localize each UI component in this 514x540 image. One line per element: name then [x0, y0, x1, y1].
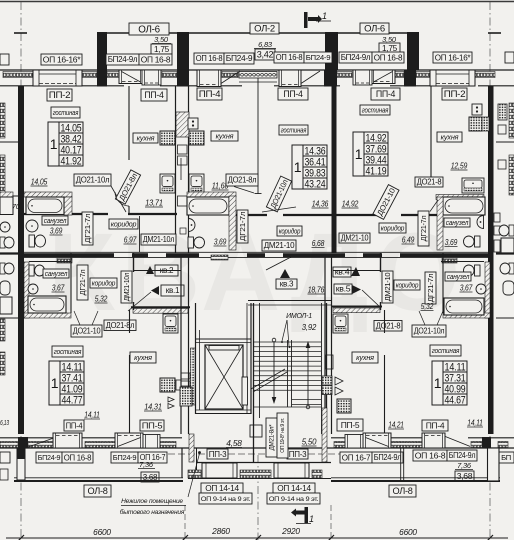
- room label sanuzel L: [42, 216, 68, 225]
- svg-text:ДО21-10: ДО21-10: [73, 327, 101, 336]
- kitchen sink LR: [333, 314, 348, 333]
- wall LL corridor top: [133, 270, 181, 272]
- svg-text:ПП-4: ПП-4: [66, 420, 83, 430]
- room label kuhnya LL: [130, 352, 156, 363]
- svg-text:гостиная: гостиная: [53, 108, 79, 117]
- label edge partial right: [505, 52, 514, 63]
- corridor wall y216 seg 1: [283, 214, 333, 216]
- kitchen partition left apt lower: [128, 206, 130, 213]
- svg-text:1,75: 1,75: [382, 43, 398, 53]
- svg-text:ОП 9-14 на 9 эт.: ОП 9-14 на 9 эт.: [269, 496, 319, 503]
- svg-text:ПП-2: ПП-2: [49, 90, 71, 100]
- svg-text:1,75: 1,75: [154, 44, 170, 54]
- label edge partial left bottom: [0, 452, 10, 463]
- window hatch top 8: [475, 72, 495, 78]
- svg-text:гостиная: гостиная: [281, 125, 307, 134]
- top wall pier D: [404, 70, 416, 87]
- door label DG21-7l CR: [418, 211, 429, 246]
- svg-text:3,69: 3,69: [50, 226, 63, 236]
- bottom wall inner face 4: [389, 437, 424, 439]
- room label sanuzel LL: [43, 269, 69, 278]
- corridor wall y253 seg 5: [363, 253, 382, 257]
- bottom wall inner face 0: [0, 437, 55, 439]
- left edge sink lower: [0, 281, 10, 295]
- kitchen partition cright apt: [430, 86, 432, 185]
- sink CR (half-round): [477, 216, 483, 229]
- bath CR top wall hatch: [436, 195, 484, 200]
- window hatch bottom 6: [471, 442, 482, 448]
- corridor wall y253 top line: [24, 251, 490, 253]
- bottom wall inner face 3: [331, 437, 363, 439]
- balcony OL-8 right rail b: [331, 480, 500, 482]
- svg-text:кв.4: кв.4: [335, 268, 350, 277]
- svg-text:коридор: коридор: [279, 227, 301, 235]
- label BP24-9l bR2: [447, 450, 477, 461]
- corridor wall y253 bottom line: [24, 257, 490, 259]
- corridor wall y253 seg 1: [132, 253, 148, 257]
- svg-text:ПП-3: ПП-3: [209, 449, 227, 459]
- section mark 1 top: [304, 11, 331, 28]
- label PP-4 LR: [422, 420, 448, 431]
- wall stair/kitchen lower: [324, 257, 326, 434]
- corridor wall y253 seg 2: [166, 253, 199, 257]
- room label kuhnya L: [133, 133, 158, 143]
- balcony OL-8 partition a: [400, 448, 402, 481]
- dim 18,76: [308, 285, 325, 295]
- right edge wall y140: [496, 141, 514, 143]
- axis line right x=490: [489, 2, 491, 538]
- porch hatch b: [240, 470, 271, 478]
- left edge bath hatch: [0, 192, 13, 197]
- wall LR kitchen2: [384, 355, 386, 434]
- svg-text:41.92: 41.92: [61, 155, 82, 167]
- window OP16-16* left: [33, 70, 82, 86]
- svg-text:2920: 2920: [281, 526, 300, 536]
- label OP16-8 bR: [413, 450, 447, 461]
- area table apt LR: [432, 361, 467, 406]
- bottom wall outer face: [0, 447, 514, 449]
- corridor wall y213 seg 1: [128, 213, 177, 215]
- label edge partial left: [0, 54, 9, 65]
- room label kuhnya CL: [211, 131, 238, 141]
- svg-text:ОЛ-6: ОЛ-6: [138, 24, 160, 35]
- label PP-3 L: [207, 449, 228, 459]
- svg-text:санузел: санузел: [446, 219, 469, 227]
- wall panel 2: [181, 381, 190, 386]
- hall wall y303 left: [131, 306, 190, 308]
- dim 6,97: [124, 235, 137, 245]
- svg-text:ДГ21-7л: ДГ21-7л: [419, 216, 428, 242]
- label kv.4: [333, 267, 351, 277]
- dim 4,58: [226, 438, 242, 448]
- area table apt CR: [353, 132, 388, 177]
- svg-text:5,32: 5,32: [421, 301, 434, 311]
- door label DO21-8l L rot: [115, 170, 140, 204]
- corridor partition L x140: [139, 216, 141, 252]
- hall wall hatch left: [133, 309, 188, 314]
- bottom wall pier right edge: [482, 437, 491, 448]
- svg-text:гостиная: гостиная: [54, 347, 82, 356]
- top facade line: [0, 1, 514, 3]
- dim 14,11 LR: [467, 418, 483, 428]
- top wall outer face: [0, 69, 514, 71]
- bathtub CR: [443, 197, 485, 215]
- dim 11,68: [212, 181, 229, 191]
- label OL-6 right: [360, 23, 389, 35]
- svg-text:6,49: 6,49: [402, 235, 415, 245]
- svg-text:7,36: 7,36: [139, 460, 154, 469]
- dim 14,11 LL: [84, 410, 100, 420]
- svg-text:ОП 14-14: ОП 14-14: [205, 483, 239, 493]
- right edge window hatch: [509, 103, 514, 138]
- left edge window hatch: [0, 103, 5, 138]
- shaft wall left inner: [188, 86, 190, 253]
- room label kuhnya CR: [437, 132, 462, 142]
- garbage chute box: [180, 387, 192, 406]
- svg-text:43.24: 43.24: [305, 178, 326, 190]
- svg-text:ДМ21-10: ДМ21-10: [341, 234, 369, 243]
- svg-text:ПП-3: ПП-3: [289, 449, 307, 459]
- door label DG21-7l LR: [425, 272, 436, 304]
- svg-text:ОП 16-8: ОП 16-8: [141, 54, 171, 64]
- svg-text:кухня: кухня: [356, 353, 374, 362]
- label OP16-16* L: [41, 54, 82, 65]
- svg-text:14,36: 14,36: [312, 199, 329, 209]
- top wall pier C: [324, 70, 337, 87]
- left edge partial box low: [0, 469, 8, 480]
- svg-text:БП24-9: БП24-9: [113, 453, 137, 462]
- window hatch top 3: [162, 72, 177, 78]
- balcony OL-8 left rail a: [14, 477, 183, 479]
- wall LL kitchen2: [129, 355, 131, 434]
- window hatch top 0: [3, 72, 35, 78]
- label OP9-14 R: [267, 493, 320, 504]
- axis line center x=258 lower: [257, 455, 259, 540]
- room label koridor LL: [90, 278, 117, 288]
- kitchen sink CR: [462, 178, 484, 193]
- svg-text:БП24-9: БП24-9: [306, 53, 331, 62]
- room label gostinaya LR: [430, 345, 461, 356]
- svg-text:12,59: 12,59: [451, 161, 468, 171]
- svg-text:18,76: 18,76: [308, 285, 325, 295]
- kv.4 arrow: [351, 267, 360, 276]
- bathtub CL: [187, 197, 229, 215]
- label 3,42: [255, 49, 275, 60]
- window hatch top 4: [222, 72, 238, 78]
- partition CR foot: [428, 185, 435, 187]
- door label DO21-10l L: [74, 174, 111, 186]
- left edge toilet: [0, 237, 14, 248]
- right edge sink lower: [503, 281, 514, 295]
- label OL-2: [250, 23, 279, 35]
- svg-text:3,67: 3,67: [52, 283, 65, 293]
- svg-text:БП24-9л: БП24-9л: [449, 451, 476, 460]
- svg-text:ДО21-10л: ДО21-10л: [414, 327, 445, 336]
- svg-text:ОП 16-7: ОП 16-7: [342, 452, 371, 462]
- svg-text:ДГ21-7л: ДГ21-7л: [238, 212, 247, 242]
- panel box CL: [188, 118, 198, 129]
- dim 13,71: [145, 198, 163, 208]
- corridor wall y253 seg 0: [24, 253, 114, 257]
- svg-text:14,11: 14,11: [84, 410, 100, 420]
- window hatch bottom 0: [0, 442, 18, 448]
- shaft hatch: [176, 112, 189, 137]
- bottom wall inner face 2: [158, 437, 182, 439]
- stove CR: [469, 117, 482, 131]
- left edge toilet lower: [0, 263, 14, 274]
- porch hatch a: [188, 470, 201, 478]
- label OP16-7 bL: [138, 452, 167, 463]
- elevator shaft walls: [196, 303, 252, 414]
- svg-text:ОП 9-14 на 9 эт.: ОП 9-14 на 9 эт.: [201, 496, 251, 503]
- dim 6,49: [402, 235, 415, 245]
- svg-text:кв.5: кв.5: [336, 285, 351, 294]
- svg-text:кухня: кухня: [137, 133, 155, 142]
- door label DM21-10l L: [141, 234, 176, 245]
- kitchen partition left apt: [128, 86, 130, 160]
- door label DM21-10 CL: [262, 240, 296, 251]
- svg-text:4,58: 4,58: [226, 438, 242, 448]
- bottom balcony door LR-1: [363, 433, 391, 448]
- dim 14,21 LRx: [388, 420, 404, 430]
- area table apt CL: [292, 145, 327, 190]
- svg-text:14,21: 14,21: [388, 420, 404, 430]
- top wall inner face 3: [218, 85, 242, 87]
- wall LL bath right: [70, 253, 72, 313]
- balcony door BP24-9 cright: [279, 70, 320, 87]
- dim 7,36 L line: [138, 468, 155, 470]
- label DO21-8 CR: [415, 177, 443, 187]
- svg-text:6600: 6600: [93, 527, 111, 537]
- window hatch top 7: [416, 72, 430, 78]
- svg-text:ДО21-8л: ДО21-8л: [106, 321, 135, 330]
- bottom balcony door LR-2: [422, 433, 470, 448]
- svg-text:ДМ21-10: ДМ21-10: [264, 241, 295, 250]
- right wall panel 2: [494, 226, 500, 235]
- svg-text:6,13: 6,13: [0, 420, 9, 427]
- svg-text:1: 1: [322, 11, 327, 21]
- bathtub L: [26, 197, 64, 215]
- svg-text:14,31: 14,31: [144, 402, 162, 412]
- dim 5,32 LR: [421, 301, 434, 311]
- kitchen sink LL: [163, 314, 178, 333]
- hall threshold hatch C: [211, 255, 228, 260]
- svg-text:3,69: 3,69: [445, 237, 458, 247]
- left edge window hatch 2: [0, 155, 5, 195]
- door label DM21-10l LL: [121, 271, 132, 303]
- window hatch top 6: [395, 72, 404, 78]
- label BP24-9l bR: [372, 452, 403, 463]
- bath LL top wall: [29, 261, 71, 263]
- wall LR bath left: [442, 253, 444, 313]
- stair left wall: [254, 303, 260, 463]
- svg-text:14,11: 14,11: [467, 418, 483, 428]
- svg-text:санузел: санузел: [44, 217, 67, 225]
- balcony OL-8 right rail a: [331, 477, 500, 479]
- label BP24-9 bL2: [111, 452, 138, 463]
- window hatch bottom 1: [28, 442, 53, 448]
- svg-text:3,67: 3,67: [460, 283, 473, 293]
- window OP16-8 sill left: [142, 70, 161, 85]
- vestibule door frame: [250, 425, 262, 437]
- stove L: [160, 131, 175, 145]
- porch left wall: [196, 448, 198, 479]
- sink CL (half-round): [189, 219, 196, 232]
- svg-text:1: 1: [355, 146, 363, 162]
- leader DO21-10l: [111, 186, 126, 212]
- bottom balcony door LL-2: [115, 433, 143, 448]
- svg-text:коридор: коридор: [396, 281, 419, 289]
- left edge bathtub partial: [0, 197, 13, 215]
- bath CL right wall hatch: [229, 196, 236, 250]
- wall LL corridor/kitchen v2: [133, 302, 135, 310]
- top wall inner face 0: [0, 85, 38, 87]
- door arc kitchen L: [115, 192, 129, 206]
- bathtub LL: [28, 296, 66, 313]
- svg-text:БП: БП: [501, 453, 511, 462]
- balcony pier mid-left: [177, 32, 189, 70]
- svg-text:7,36: 7,36: [457, 461, 472, 470]
- leader 14,36: [262, 207, 296, 212]
- kitchen sink CL: [189, 174, 204, 193]
- svg-text:кухня: кухня: [134, 353, 152, 362]
- balcony OL-6 right rail: [338, 32, 418, 34]
- porch wall hatch left: [189, 434, 194, 462]
- shaft wall left outer: [175, 86, 177, 253]
- svg-text:6,97: 6,97: [124, 235, 137, 245]
- room label sanuzel CR: [444, 218, 470, 227]
- svg-text:3,92: 3,92: [302, 323, 317, 332]
- axis line x=331 lower: [330, 505, 332, 540]
- bath LR right wall hatch: [485, 262, 490, 318]
- garbage chute boxes: [322, 376, 343, 395]
- svg-text:санузел: санузел: [45, 270, 68, 278]
- svg-text:1: 1: [434, 375, 442, 391]
- balcony OL-2 rail: [189, 32, 338, 34]
- dim 14,31 LL: [144, 402, 162, 412]
- corridor wall y216 seg 0: [236, 214, 267, 216]
- svg-text:3,42: 3,42: [257, 50, 274, 60]
- dim 3,67 LL: [52, 283, 65, 293]
- svg-text:3,68: 3,68: [457, 471, 473, 481]
- svg-text:ОЛ-2: ОЛ-2: [254, 24, 275, 35]
- door label DO21-8 LR: [374, 321, 402, 332]
- bottom dimension line: [6, 537, 508, 539]
- stair top wall: [248, 301, 331, 306]
- svg-text:ПП-4: ПП-4: [283, 89, 303, 99]
- left edge window hatch low: [0, 319, 5, 341]
- svg-text:ИМОЛ-1: ИМОЛ-1: [286, 313, 312, 320]
- svg-text:ОЛ-6: ОЛ-6: [364, 24, 385, 35]
- sink LR: [476, 284, 486, 294]
- door label DO21-10 LL: [71, 325, 102, 337]
- leader DO21-8l CL: [234, 187, 254, 194]
- svg-text:2860: 2860: [211, 526, 230, 536]
- svg-text:1: 1: [51, 375, 59, 391]
- shaft vent triangle: [190, 119, 197, 125]
- bottom window OP16-7 L: [143, 435, 160, 449]
- svg-text:5,32: 5,32: [95, 294, 108, 304]
- window hatch bottom 4: [334, 442, 345, 448]
- shaft panel 2: [178, 156, 188, 165]
- room label gostinaya CL: [279, 125, 308, 135]
- svg-text:гостиная: гостиная: [362, 105, 389, 114]
- svg-text:бытового назначения: бытового назначения: [120, 508, 185, 516]
- bath LL left wall hatch: [24, 262, 29, 318]
- door label DO21-8l LL: [104, 320, 136, 331]
- svg-text:ДГ21-7л: ДГ21-7л: [426, 274, 435, 303]
- svg-text:ПП-4: ПП-4: [144, 90, 164, 100]
- svg-text:ДО21-8л: ДО21-8л: [228, 176, 257, 185]
- toilet L: [29, 235, 46, 247]
- vent stack box: [326, 355, 333, 369]
- label BP24-9 L: [224, 53, 254, 64]
- dim tick 2: [255, 535, 261, 540]
- svg-text:3,69: 3,69: [214, 237, 227, 247]
- dim tick 3: [328, 535, 334, 540]
- leader DO21-10l LR: [419, 311, 443, 325]
- door label DM21-10 LR: [382, 271, 393, 303]
- svg-text:кв.1: кв.1: [166, 286, 180, 295]
- label OP16-8 R1: [274, 52, 304, 63]
- svg-text:кухня: кухня: [441, 132, 459, 141]
- svg-text:5,50: 5,50: [302, 437, 317, 447]
- svg-text:ОП 16-16*: ОП 16-16*: [43, 54, 82, 64]
- hall wall y303 right: [331, 306, 382, 308]
- label PP-4 L1: [141, 89, 167, 101]
- kv1 arrow: [151, 286, 159, 295]
- left edge window hatch low2: [0, 352, 5, 375]
- bath LR top wall: [441, 261, 484, 263]
- balcony door BP24-9l left: [119, 70, 143, 84]
- label PP-5 LR: [337, 419, 363, 431]
- dim 14,92: [342, 199, 359, 209]
- balcony right edge stub: [488, 32, 501, 34]
- label PP-2 R: [442, 88, 467, 100]
- right edge bathtub partial: [501, 238, 514, 254]
- wall LR corridor top: [333, 270, 381, 272]
- right edge wall y318: [496, 317, 514, 319]
- section wall left: [18, 86, 24, 434]
- stove LL: [160, 378, 175, 392]
- label kv.5: [334, 284, 352, 294]
- wall LR kitchen: [384, 310, 386, 333]
- hatch block CR: [482, 117, 489, 131]
- label PP-3 R: [287, 449, 308, 459]
- svg-text:ДМ21-10л: ДМ21-10л: [123, 273, 131, 302]
- top wall inner face 1: [82, 85, 124, 87]
- porch front line: [188, 478, 331, 480]
- balcony OL-8 right end: [488, 448, 500, 481]
- top wall inner face 2: [160, 85, 200, 87]
- kv.3 arrow: [280, 269, 290, 278]
- right edge wall y253: [496, 252, 514, 254]
- room label gostinaya LL: [52, 346, 83, 357]
- svg-text:ДМ21-10: ДМ21-10: [384, 272, 392, 301]
- room label kuhnya LR: [352, 352, 378, 363]
- left edge wall y253: [0, 252, 18, 254]
- toilet LR: [464, 265, 481, 276]
- window OP16-8 sill right: [353, 70, 372, 85]
- right wall panel 3: [494, 240, 500, 252]
- label PP-2 L: [47, 89, 72, 101]
- right edge panel: [498, 125, 506, 134]
- top wall pier A: [97, 70, 107, 87]
- svg-text:44.67: 44.67: [445, 394, 466, 406]
- svg-text:ОП 16-8: ОП 16-8: [374, 52, 403, 62]
- toilet CL: [188, 237, 205, 248]
- dim tick 0: [18, 535, 24, 540]
